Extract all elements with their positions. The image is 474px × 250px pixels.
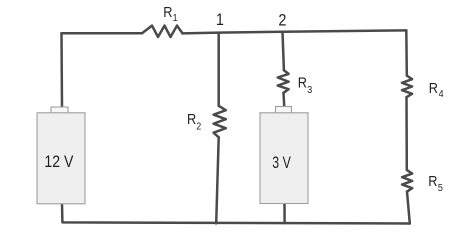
node 2 label bbox=[278, 11, 286, 29]
wire node 1 branch lower bbox=[216, 137, 219, 223]
battery V2 3V body bbox=[260, 113, 308, 204]
label R2 bbox=[187, 110, 196, 127]
svg-text:2: 2 bbox=[278, 11, 286, 29]
wire R3 to 3V battery bbox=[282, 93, 285, 108]
label R3 subscript 3 bbox=[307, 84, 312, 96]
wire node 1 vertical bbox=[217, 33, 220, 106]
wire top horizontal to right corner bbox=[183, 30, 407, 33]
battery V1 12V tab bbox=[51, 107, 68, 113]
wire bottom from 12V battery bbox=[62, 204, 410, 224]
wire below 3V battery bbox=[283, 203, 286, 224]
wire top-left horizontal bbox=[62, 32, 143, 35]
svg-text:3 V: 3 V bbox=[272, 153, 291, 172]
svg-text:1: 1 bbox=[173, 12, 178, 24]
svg-text:5: 5 bbox=[438, 183, 443, 195]
resistor R4 bbox=[402, 76, 412, 98]
svg-text:R: R bbox=[429, 79, 438, 96]
resistor R3 bbox=[278, 70, 289, 93]
svg-text:4: 4 bbox=[439, 88, 444, 100]
label R4 bbox=[429, 79, 438, 96]
wire node 2 vertical bbox=[283, 32, 284, 71]
svg-text:12 V: 12 V bbox=[44, 152, 74, 171]
svg-text:R: R bbox=[428, 172, 437, 189]
label R1 bbox=[163, 3, 172, 20]
svg-text:1: 1 bbox=[216, 11, 224, 29]
wire left vertical bbox=[60, 33, 63, 107]
svg-text:2: 2 bbox=[196, 121, 201, 133]
resistor R5 bbox=[402, 170, 412, 192]
label R3 bbox=[298, 73, 307, 90]
wire R5 to bottom corner bbox=[407, 192, 410, 224]
resistor R1 bbox=[142, 26, 183, 37]
label R1 subscript 1 bbox=[173, 12, 178, 24]
svg-text:R: R bbox=[163, 3, 172, 20]
label R4 subscript 4 bbox=[439, 88, 444, 100]
label R5 subscript 5 bbox=[438, 183, 443, 195]
svg-text:3: 3 bbox=[307, 84, 312, 96]
svg-text:R: R bbox=[298, 73, 307, 90]
wire right vertical upper bbox=[405, 30, 408, 75]
svg-text:R: R bbox=[187, 110, 196, 127]
battery V1 12V body bbox=[37, 113, 85, 204]
battery V2 3V tab bbox=[276, 107, 292, 114]
label R2 subscript 2 bbox=[196, 121, 201, 133]
wire between R4 and R5 bbox=[405, 97, 408, 170]
resistor R2 bbox=[214, 106, 226, 138]
node 1 label bbox=[216, 11, 224, 29]
label R5 bbox=[428, 172, 437, 189]
